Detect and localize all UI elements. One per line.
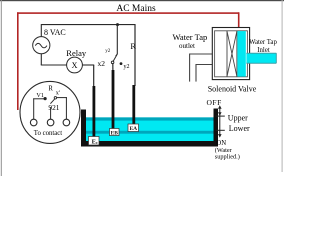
svg-text:y2: y2 (105, 49, 111, 54)
socket label R (48, 86, 53, 93)
socket node V1 (44, 97, 47, 100)
water in tank (86, 117, 214, 141)
svg-text:supplied.): supplied.) (215, 153, 240, 160)
label box: Ec (89, 137, 100, 146)
socket label x' (56, 89, 61, 96)
svg-text:ON: ON (216, 140, 226, 147)
wire: AC mains red drop to solenoid valve (238, 12, 240, 27)
svg-text:y2: y2 (124, 64, 130, 70)
label: Solenoid Valve (208, 85, 257, 94)
junction node on top rail (116, 23, 119, 26)
label: Relay (66, 48, 87, 58)
wire: AC source top lead (40, 24, 42, 36)
svg-text:c: c (96, 140, 98, 145)
svg-text:Inlet: Inlet (257, 47, 270, 54)
svg-text:outlet: outlet (179, 42, 195, 50)
solenoid valve body (212, 28, 249, 80)
svg-text:V1: V1 (36, 92, 44, 99)
socket label 921 (48, 103, 59, 112)
relay contact switch x2 (pole) (98, 54, 118, 68)
AC source (8 VAC transformer secondary) (33, 37, 50, 54)
level label: Upper (228, 113, 248, 122)
relay coil X (67, 57, 83, 73)
wire: pin 3 stem (57, 97, 67, 119)
svg-text:EA: EA (129, 126, 137, 132)
water tank left wall (81, 110, 86, 147)
socket blade x' (50, 97, 56, 104)
electrode probe EB (lower level, from switch pole) (112, 63, 115, 130)
level label: ON (Water supplied.) (215, 140, 240, 160)
label box: EA (128, 124, 139, 132)
water tap inlet pipe (246, 53, 276, 63)
level label: OFF (207, 98, 222, 107)
svg-text:Water Tap: Water Tap (249, 39, 277, 46)
water tank bottom (81, 141, 218, 147)
water tank right wall (214, 109, 219, 147)
wire: pin 1 stem (33, 98, 44, 119)
contact node y2 (right) (120, 62, 130, 70)
wire: AC mains red left drop to relay socket (17, 12, 19, 110)
resistor R label (130, 41, 136, 51)
water tap outlet pipe (190, 54, 213, 82)
label box: EB (110, 129, 120, 137)
wire: AC source bottom lead to relay coil (41, 54, 67, 65)
wire: relay coil to electrode Ec drop (82, 64, 94, 66)
svg-text:Lower: Lower (229, 124, 250, 133)
svg-text:R: R (48, 86, 53, 93)
svg-text:Solenoid Valve: Solenoid Valve (208, 85, 257, 94)
electrode probe Ec (common, deepest) (93, 65, 96, 137)
svg-text:x2: x2 (98, 59, 106, 68)
level label: Lower (229, 124, 250, 133)
relay socket circle (To contact) (20, 81, 80, 143)
tiny contact label y2 (upper) (105, 49, 111, 54)
label: Water Tap outlet (173, 32, 208, 50)
value label: 8 VAC (44, 28, 66, 37)
svg-text:OFF: OFF (207, 98, 222, 107)
electrode probe EA (upper level, from resistor R drop) (132, 24, 135, 124)
label: Water Tap Inlet (249, 39, 277, 54)
socket label V1 (36, 92, 44, 99)
net label: AC Mains (116, 4, 156, 14)
wire: top horizontal rail from AC source to resistor R drop (41, 24, 135, 26)
socket pin 2 (47, 119, 54, 126)
socket pin 1 (30, 119, 37, 126)
svg-text:AC Mains: AC Mains (116, 4, 156, 14)
wire: AC mains red line (top rail) (17, 12, 239, 14)
svg-text:Water Tap: Water Tap (173, 32, 208, 42)
wire: pin 2 stem (50, 107, 52, 119)
water level indicator line (216, 105, 225, 137)
svg-text:x′: x′ (56, 89, 61, 96)
socket pin 3 (63, 119, 70, 126)
svg-text:EB: EB (111, 130, 119, 136)
svg-text:8 VAC: 8 VAC (44, 28, 66, 37)
svg-text:Upper: Upper (228, 113, 248, 122)
svg-text:To contact: To contact (34, 130, 63, 137)
wire: upper contact drop from junction (116, 25, 118, 57)
svg-text:Relay: Relay (66, 48, 87, 58)
svg-text:X: X (72, 61, 78, 70)
socket caption: To contact (34, 130, 63, 137)
